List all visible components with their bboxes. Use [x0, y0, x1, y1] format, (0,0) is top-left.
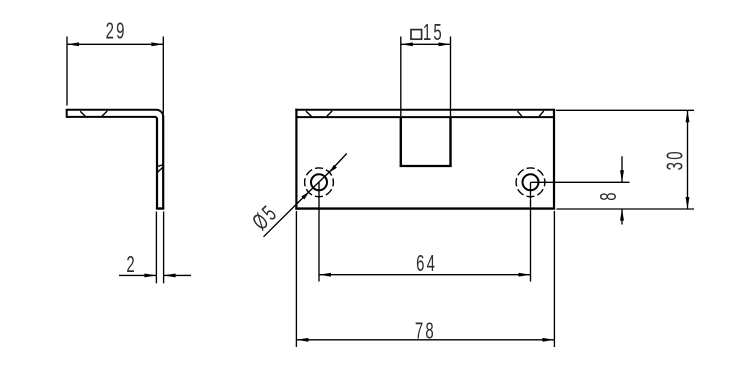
dimension 64: right extension line from hole center	[530, 182, 532, 281]
front view: notch right edge	[449, 117, 451, 166]
dimension 2: dimension line left segment	[119, 274, 156, 276]
front view: bend mark backslash right	[517, 111, 522, 116]
dimension 78: left extension line	[295, 211, 297, 347]
front view: notch bottom edge	[400, 165, 452, 167]
hole left: dashed thread circle	[305, 168, 334, 197]
side view: thin-section upper mark in vertical leg	[157, 165, 163, 167]
hole left: bore circle	[311, 174, 327, 190]
dimension 30: top extension line	[556, 109, 694, 111]
side view: horizontal leg top edge with outer corner arc	[67, 110, 164, 117]
side view: thin-section slash mark in horizontal leg	[102, 111, 108, 116]
dimension 64: left extension line from hole center	[318, 182, 320, 281]
side view: vertical leg bottom end cap	[156, 207, 164, 209]
front view: left edge	[295, 109, 297, 210]
dimension box15: right extension line	[450, 37, 452, 117]
dimension 64: left arrowhead	[319, 273, 331, 277]
dimension 64: dimension line	[319, 274, 531, 276]
side view: vertical leg inner left edge	[156, 118, 158, 208]
svg-text:78: 78	[415, 318, 436, 344]
dimension 29: right extension line	[162, 37, 164, 114]
side view: thin-section lower mark in vertical leg	[157, 167, 163, 173]
dimension 78: left arrowhead	[296, 338, 308, 342]
dimension dia5: leader line through hole	[309, 172, 330, 192]
dimension 30: top arrowhead	[686, 110, 690, 122]
front view: bottom edge	[295, 207, 555, 209]
side view: horizontal leg bottom edge	[67, 116, 155, 118]
svg-text:Ø5: Ø5	[248, 200, 284, 236]
dimension 30: bottom arrowhead	[686, 197, 690, 209]
dimension 29: left extension line	[66, 37, 68, 106]
side view: left end cap of horizontal leg	[66, 109, 68, 118]
svg-text:15: 15	[423, 20, 444, 46]
svg-text:8: 8	[596, 190, 622, 201]
dimension box15: right arrowhead	[439, 42, 451, 46]
front view: bend mark slash right	[539, 111, 544, 116]
front view: notch left edge	[400, 117, 402, 166]
front view: right edge	[553, 109, 555, 210]
dimension 8: upper dimension line segment	[621, 156, 623, 182]
dimension box15: left arrowhead	[401, 42, 413, 46]
side view: inner corner arc	[155, 117, 157, 119]
dimension dia5: leader line upper segment	[329, 154, 347, 173]
dimension box15: square symbol	[411, 30, 422, 40]
hole right: dashed thread circle	[516, 168, 545, 197]
dimension 29: right arrowhead	[151, 42, 163, 46]
dimension dia5: lower arrowhead pointing upper-right	[301, 192, 309, 200]
svg-text:64: 64	[416, 251, 437, 277]
dimension 2: left arrowhead pointing right	[144, 273, 156, 277]
front view: bend mark slash left	[327, 111, 332, 116]
dimension 2: dimension line right segment	[164, 274, 191, 276]
dimension 30: dimension line	[687, 110, 689, 209]
dimension 8: hole centerline extension	[531, 181, 630, 183]
dimension box15: dimension line	[401, 43, 451, 45]
dimension 2: left extension line	[155, 212, 157, 284]
dimension 78: right extension line	[553, 211, 555, 347]
dimension 30: bottom extension line	[557, 208, 695, 210]
dimension box15: left extension line	[400, 37, 402, 117]
side view: thin-section backslash mark in horizontal leg	[80, 111, 85, 116]
dimension 64: right arrowhead	[519, 273, 531, 277]
front view: bend line of flange	[296, 116, 554, 118]
svg-text:30: 30	[662, 149, 688, 170]
dimension 2: right extension line	[163, 212, 165, 284]
dimension 2: right arrowhead pointing left	[164, 273, 176, 277]
dimension 8: upper arrowhead pointing down	[620, 170, 624, 182]
dimension 8: lower dimension line segment	[621, 209, 623, 225]
svg-text:2: 2	[126, 252, 137, 278]
dimension 78: right arrowhead	[542, 338, 554, 342]
dimension 78: dimension line	[296, 339, 554, 341]
dimension 8: lower arrowhead pointing up	[620, 209, 624, 221]
hole right: bore circle	[523, 174, 539, 190]
dimension dia5: upper arrowhead pointing lower-left	[329, 165, 337, 173]
dimension 29: left arrowhead	[67, 42, 79, 46]
side view: vertical leg outer right edge	[162, 116, 164, 208]
front view: bend mark backslash left	[306, 111, 312, 116]
dimension 29: dimension line	[67, 43, 163, 45]
front view: top edge	[295, 109, 555, 111]
svg-text:29: 29	[106, 18, 127, 44]
dimension dia5: leader line lower segment	[264, 192, 309, 237]
